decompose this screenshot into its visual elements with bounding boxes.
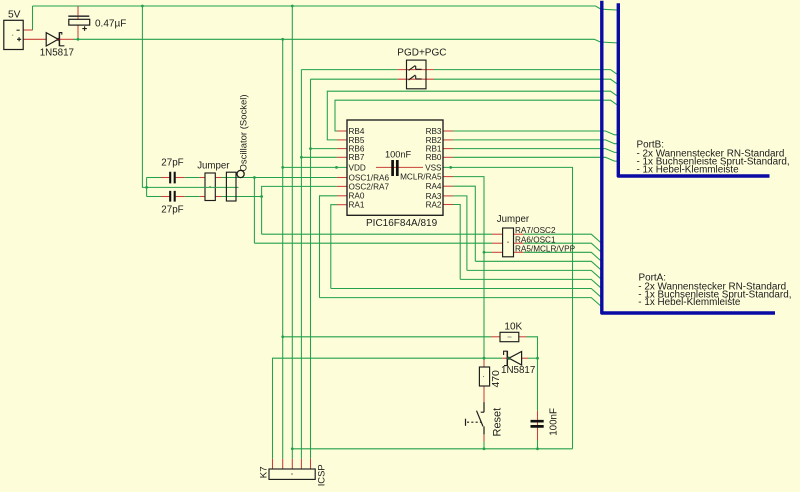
svg-text:VSS: VSS bbox=[425, 163, 442, 172]
diode D2 1N5817 bottom bbox=[504, 351, 522, 366]
wire jumper row2 to PortA bus bbox=[514, 243, 602, 252]
wire OSC1 drop to RA6 jumper row bbox=[253, 178, 255, 244]
wire RA4 drop bbox=[443, 186, 475, 261]
wire PGD row to switch and bus bbox=[301, 70, 616, 75]
wire bottom GND rail bbox=[292, 448, 572, 450]
wire OSC1 row left of cap C1 bbox=[147, 177, 161, 179]
svg-text:PGD+PGC: PGD+PGC bbox=[397, 47, 446, 58]
wire 0.47uF top stub (red) bbox=[77, 6, 79, 19]
wire PGC row to switch and bus bbox=[311, 79, 617, 84]
svg-text:27pF: 27pF bbox=[161, 157, 183, 168]
diode D1 1N5817 top bbox=[46, 32, 64, 46]
wire RB7 stub bbox=[301, 156, 347, 158]
resistor R2 470 bbox=[479, 367, 489, 386]
svg-text:RB0: RB0 bbox=[426, 153, 442, 162]
label Jumper oscillator bbox=[197, 161, 230, 172]
label K7 rotated bbox=[258, 466, 269, 478]
wire ICSP GND riser bbox=[291, 6, 293, 459]
svg-text:RA6/OSC1: RA6/OSC1 bbox=[515, 236, 556, 245]
wire VDD to 10K resistor bbox=[283, 336, 500, 338]
wire 0.47uF bottom stub (red) bbox=[77, 25, 79, 39]
wire 470 top stub (red) bbox=[483, 358, 485, 367]
wire jumper row3 to PortA bus bbox=[514, 252, 602, 261]
wire ICSP pin1 to reset row bbox=[273, 358, 485, 459]
wire VDD riser from +5V rail bbox=[282, 39, 284, 459]
switch PGD+PGC bbox=[407, 60, 427, 89]
svg-text:RB2: RB2 bbox=[426, 136, 442, 145]
svg-text:MCLR/RA5: MCLR/RA5 bbox=[400, 173, 442, 182]
jumper J2 RA port bbox=[503, 228, 514, 257]
label PortA block bbox=[638, 273, 791, 308]
wire OSC2 riser to PIC pin bbox=[262, 186, 347, 196]
pin labels PIC left bbox=[349, 127, 390, 210]
wire RA3 row to PortA bus bbox=[467, 270, 602, 279]
svg-text:RA1: RA1 bbox=[349, 201, 365, 210]
wire GND drop to 27pF caps bbox=[142, 6, 146, 197]
svg-text:- 1x Hebel-Klemmleiste: - 1x Hebel-Klemmleiste bbox=[637, 165, 740, 176]
wire diode to +5V (red) bbox=[58, 38, 73, 40]
wire battery minus to GND rail bbox=[32, 6, 34, 30]
wire ICSP PGD riser bbox=[300, 70, 302, 459]
label RA6/OSC1 bbox=[515, 236, 556, 245]
label 100nF chip cap bbox=[385, 150, 411, 160]
svg-text:RA7/OSC2: RA7/OSC2 bbox=[515, 226, 556, 235]
wire battery minus stub (red) bbox=[23, 29, 33, 31]
wire diode right to node (red+green) bbox=[522, 357, 538, 359]
svg-text:5V: 5V bbox=[8, 9, 21, 20]
capacitor 100nF decoupling (inside chip) bbox=[376, 160, 423, 176]
svg-text:- 1x Hebel-Klemmleiste: - 1x Hebel-Klemmleiste bbox=[638, 297, 741, 308]
svg-text:RB4: RB4 bbox=[349, 127, 365, 136]
svg-text:Jumper: Jumper bbox=[497, 214, 530, 225]
label 27pF top bbox=[161, 157, 183, 168]
wire RB5 over chip to bus bbox=[327, 91, 617, 140]
wire OSC1 cap C1 to jumper (red+green) bbox=[176, 177, 205, 179]
svg-text:RB7: RB7 bbox=[349, 153, 365, 162]
pin labels PIC right bbox=[400, 127, 442, 210]
wire jumper row1 to PortA bus bbox=[514, 234, 602, 243]
wire VDD row to PIC bbox=[283, 166, 347, 169]
label 5V bbox=[8, 9, 21, 20]
label 100nF reset rotated bbox=[549, 408, 560, 436]
wire RA4 row to PortA bus bbox=[475, 261, 602, 270]
svg-text:RB3: RB3 bbox=[426, 127, 442, 136]
wire OSC2 jumper to socket (red) bbox=[215, 196, 261, 198]
svg-text:RB5: RB5 bbox=[349, 136, 365, 145]
svg-text:VDD: VDD bbox=[349, 164, 366, 173]
wire RA2 drop bbox=[443, 205, 460, 280]
svg-text:PIC16F84A/819: PIC16F84A/819 bbox=[366, 218, 438, 229]
svg-text:Oscillator (Sockel): Oscillator (Sockel) bbox=[238, 94, 249, 171]
wire RA6/OSC1 row to jumper bbox=[254, 242, 502, 244]
wire RA1 row to PortA bus bbox=[331, 289, 602, 298]
label ICSP rotated bbox=[316, 464, 327, 486]
label RA5/MCLR/VPP bbox=[515, 245, 576, 254]
wire VSS to ground drop bbox=[443, 166, 573, 449]
svg-text:1N5817: 1N5817 bbox=[501, 365, 535, 376]
wire RB3 to bus bbox=[443, 131, 617, 135]
svg-text:OSC1/RA6: OSC1/RA6 bbox=[349, 173, 390, 182]
svg-text:Reset: Reset bbox=[492, 408, 504, 437]
svg-text:RB6: RB6 bbox=[349, 145, 365, 154]
svg-text:RA4: RA4 bbox=[426, 182, 442, 191]
wire GND spur into oscillator socket bbox=[147, 186, 239, 188]
wire OSC1 socket to PIC pin bbox=[226, 177, 347, 179]
wire +5V rail bbox=[74, 39, 618, 43]
svg-text:K7: K7 bbox=[258, 466, 269, 478]
wire RB2 to bus bbox=[443, 140, 617, 144]
label 1N5817 top bbox=[40, 47, 74, 58]
wire ICSP pin stubs (red) bbox=[273, 459, 311, 469]
label RA7/OSC2 bbox=[515, 226, 556, 235]
wire reset row diode left (red) bbox=[484, 357, 508, 359]
svg-text:RA0: RA0 bbox=[349, 192, 365, 201]
wire OSC2 drop to RA7 jumper row bbox=[261, 197, 263, 235]
switch Reset pushbutton bbox=[466, 402, 485, 434]
label Oscillator (Sockel) rotated bbox=[238, 94, 249, 171]
label 27pF bottom bbox=[161, 205, 183, 216]
wire 470 bottom stub (red) bbox=[483, 386, 485, 402]
wire 10K to MCLR node bbox=[519, 337, 538, 411]
label 1N5817 bottom bbox=[501, 365, 535, 376]
bus PortA outer blue line bbox=[602, 1, 775, 313]
svg-text:Jumper: Jumper bbox=[197, 161, 230, 172]
label 470 rotated bbox=[491, 370, 502, 388]
svg-text:0.47µF: 0.47µF bbox=[95, 18, 126, 29]
wire ICSP PGC riser bbox=[310, 79, 312, 459]
wire OSC1 jumper to socket (red) bbox=[215, 177, 226, 179]
connector K7 ICSP bbox=[269, 469, 315, 479]
wire battery plus stub to diode (red) bbox=[23, 38, 47, 40]
wire GND top rail bbox=[33, 6, 617, 10]
svg-text:1N5817: 1N5817 bbox=[40, 47, 74, 58]
svg-text:10K: 10K bbox=[504, 322, 522, 333]
wire MCLR/RA5 drop to jumper and reset bbox=[443, 177, 484, 359]
jumper J1 oscillator select bbox=[205, 173, 215, 201]
svg-text:27pF: 27pF bbox=[161, 205, 183, 216]
label PortB block bbox=[637, 140, 790, 176]
wire 100nF bottom stub (red) bbox=[537, 440, 539, 449]
capacitor C2 27pF bottom bbox=[170, 191, 175, 202]
wire RA5 row to jumper bbox=[484, 251, 503, 253]
wire RA0 row to PortA bus bbox=[320, 298, 602, 307]
label PGD+PGC bbox=[397, 47, 446, 58]
oscillator socket bbox=[226, 170, 244, 201]
capacitor C3 100nF reset bbox=[531, 421, 544, 426]
label PIC16F84A/819 bbox=[366, 218, 438, 229]
wire RA0 stub and drop bbox=[320, 196, 348, 298]
label Jumper RA bbox=[497, 214, 530, 225]
wire RB1 to bus bbox=[443, 149, 617, 153]
wire RA3 drop bbox=[443, 196, 467, 271]
svg-text:100nF: 100nF bbox=[549, 408, 560, 436]
svg-text:OSC2/RA7: OSC2/RA7 bbox=[349, 182, 390, 191]
wire RB6 stub bbox=[311, 148, 348, 150]
svg-text:470: 470 bbox=[491, 370, 502, 388]
svg-text:RA2: RA2 bbox=[426, 200, 442, 209]
wire RB4 over chip to bus bbox=[335, 100, 617, 131]
wire RB0 to bus bbox=[443, 157, 617, 161]
svg-text:100nF: 100nF bbox=[385, 150, 411, 160]
svg-text:ICSP: ICSP bbox=[316, 464, 327, 486]
svg-text:RA5/MCLR/VPP: RA5/MCLR/VPP bbox=[515, 245, 576, 254]
label Reset rotated bbox=[492, 408, 504, 437]
bus PortB inner blue line bbox=[618, 3, 769, 176]
capacitor C1 27pF top bbox=[170, 172, 175, 184]
wire OSC2 cap C2 to jumper (red+green) bbox=[176, 196, 205, 198]
capacitor 0.47uF electrolytic bbox=[68, 16, 89, 31]
svg-text:RB1: RB1 bbox=[426, 145, 442, 154]
wire RA1 stub and drop bbox=[331, 205, 347, 289]
wire RA7/OSC2 row to jumper bbox=[262, 233, 503, 235]
wire 100nF top stub (red) bbox=[537, 411, 539, 440]
label 10K bbox=[504, 322, 522, 333]
wire reset switch bottom stub (red) bbox=[483, 434, 485, 448]
resistor R1 10K bbox=[500, 332, 519, 341]
label 0.47uF bbox=[95, 18, 126, 29]
battery B1 5V bbox=[4, 20, 23, 49]
wire OSC2 row left of cap C2 bbox=[147, 196, 161, 198]
wire RA2 row to PortA bus bbox=[460, 279, 602, 288]
IC U1 PIC16F84A body bbox=[347, 120, 443, 215]
wire OSC2 cap C2 left stub (red) bbox=[161, 196, 169, 198]
wire OSC1 cap C1 left stub (red) bbox=[161, 177, 169, 179]
